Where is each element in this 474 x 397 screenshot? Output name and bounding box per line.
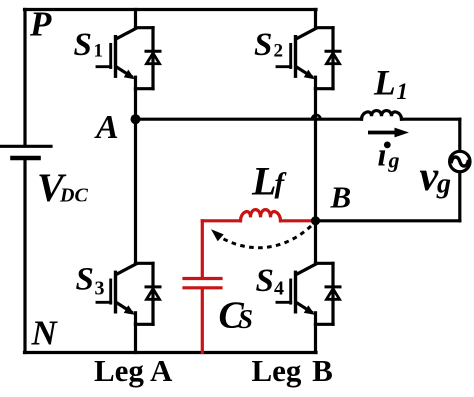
svg-text:S: S <box>256 263 274 299</box>
node A junction dot <box>131 114 141 124</box>
battery VDC short plate <box>13 156 39 161</box>
wire vg to node B <box>316 219 460 222</box>
transistor S3 <box>97 263 160 324</box>
ac source vg circle <box>450 151 470 171</box>
wire red Lf to node B <box>281 219 316 222</box>
current ig arrow <box>368 128 409 138</box>
svg-text:B: B <box>330 180 352 215</box>
wire leg A collector stub <box>134 10 137 28</box>
svg-text:g: g <box>436 169 451 200</box>
wire bottom rail N <box>25 351 317 354</box>
svg-text:DC: DC <box>59 185 88 207</box>
capacitor CS top plate <box>184 277 221 280</box>
wire top rail P <box>25 8 317 11</box>
svg-text:S: S <box>76 262 94 298</box>
svg-text:Leg A: Leg A <box>94 353 173 388</box>
svg-text:N: N <box>31 314 59 353</box>
transistor S2 <box>277 28 340 89</box>
wire hop over leg B <box>312 115 321 119</box>
node B junction dot <box>311 216 320 225</box>
wire leg A bottom stub <box>134 324 137 352</box>
wire leg A node A to S3 <box>134 119 137 263</box>
wire left vertical lower <box>23 160 26 353</box>
svg-text:2: 2 <box>274 41 284 62</box>
svg-text:S: S <box>254 27 272 63</box>
transistor S4 <box>277 263 340 324</box>
svg-text:L: L <box>251 158 276 203</box>
svg-text:L: L <box>373 63 396 103</box>
svg-text:f: f <box>275 168 288 200</box>
wire leg B middle (S2 emitter through node B to S4) <box>314 89 317 264</box>
wire leg B bottom stub <box>314 324 317 352</box>
svg-text:Leg B: Leg B <box>252 353 333 388</box>
wire red capacitor to bottom rail <box>201 289 204 352</box>
ac source vg sine <box>452 157 469 166</box>
svg-text:3: 3 <box>95 278 105 300</box>
wire right vertical lower <box>458 173 461 221</box>
svg-text:S: S <box>238 304 253 334</box>
transistor S1 <box>97 28 160 89</box>
inductor L1 <box>362 111 402 120</box>
wire L1 to right corner <box>402 118 460 121</box>
wire right vertical upper <box>458 119 461 150</box>
wire left vertical upper <box>23 10 26 145</box>
capacitor CS bottom plate <box>184 286 221 289</box>
svg-text:g: g <box>388 148 400 173</box>
inductor Lf <box>241 210 281 221</box>
wire leg A middle (S1 emitter to node A) <box>134 89 137 120</box>
svg-text:1: 1 <box>94 41 104 62</box>
wire node A to L1 <box>136 118 362 121</box>
battery VDC long plate <box>1 145 51 148</box>
wire red Lf branch from corner to node B <box>202 219 240 222</box>
svg-text:4: 4 <box>274 278 284 300</box>
wire red vertical to capacitor <box>201 221 204 277</box>
svg-text:P: P <box>29 5 52 44</box>
dashed feedback arrow <box>211 226 311 248</box>
svg-text:A: A <box>94 109 119 146</box>
svg-text:S: S <box>74 27 92 63</box>
wire leg B collector stub <box>314 10 317 28</box>
svg-text:1: 1 <box>397 79 409 104</box>
